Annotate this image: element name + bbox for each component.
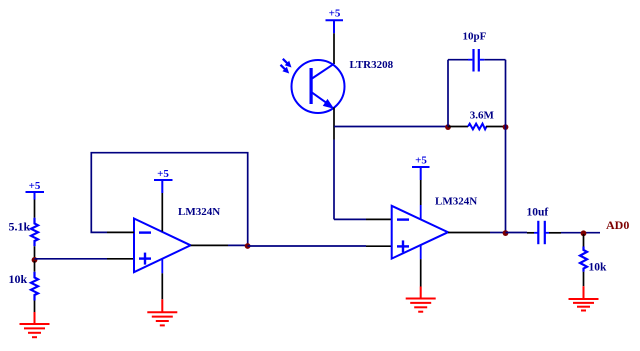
ground (right) (569, 286, 599, 310)
wire (feedback loop left) (447, 60, 449, 127)
capacitor C2 10uf (527, 207, 562, 245)
capacitor C1 10pF (463, 31, 487, 72)
wire (333, 140, 335, 220)
wire (U2 V+ pin) (420, 180, 422, 219)
wire (448, 59, 468, 61)
svg-text:AD0: AD0 (606, 218, 629, 232)
wire (35, 258, 108, 260)
wire (U2 output pin) (448, 232, 490, 234)
ground (U1) (147, 299, 177, 325)
node (503, 124, 509, 130)
op-amp U1 LM324N (134, 206, 220, 272)
svg-text:+5: +5 (157, 168, 169, 180)
phototransistor Q1 LTR3208 (281, 59, 394, 113)
power +5 (left divider) (26, 180, 45, 200)
wire (U1 V+ pin) (161, 193, 163, 232)
resistor R2 10k (9, 272, 39, 301)
wire (334, 126, 447, 128)
svg-text:10uf: 10uf (527, 207, 549, 219)
wire (U1 output pin) (191, 244, 228, 246)
wire (506, 232, 528, 234)
svg-text:10k: 10k (9, 272, 28, 286)
resistor R4 10k (580, 247, 607, 274)
resistor R1 5.1k (9, 218, 39, 247)
node (U1 output) (245, 243, 251, 249)
node (divider tap) (32, 257, 38, 263)
wire (U2 -in pin) (366, 218, 392, 220)
wire (U1 -in pin) (107, 231, 134, 233)
svg-text:+5: +5 (415, 155, 427, 167)
wire (334, 218, 366, 220)
wire (484, 59, 505, 61)
wire (583, 234, 585, 247)
wire (34, 301, 36, 313)
wire (U1 V- pin) (161, 259, 163, 299)
node (445, 124, 451, 130)
power +5 (U2) (412, 155, 430, 181)
op-amp U2 LM324N (392, 196, 478, 259)
wire (505, 127, 507, 233)
wire (feedback loop right) (505, 60, 507, 127)
wire (34, 200, 36, 218)
wire (583, 272, 585, 287)
node (AD0) (581, 230, 587, 236)
wire (561, 232, 600, 234)
wire (248, 245, 367, 247)
wire (U2 +in pin) (366, 245, 392, 247)
wire (U1 +in pin) (107, 258, 134, 260)
wire (Q1 collector) (333, 33, 335, 64)
power +5 (Q1) (326, 8, 344, 34)
wire (34, 261, 36, 272)
ground (left) (20, 312, 50, 337)
node (U2 output) (503, 230, 509, 236)
svg-text:LM324N: LM324N (178, 206, 220, 218)
wire (Q1 emitter) (333, 108, 335, 140)
wire (U2 V- pin) (420, 245, 422, 286)
svg-text:+5: +5 (29, 180, 41, 192)
svg-text:LTR3208: LTR3208 (350, 59, 394, 71)
power +5 (U1) (154, 168, 173, 193)
wire (U1 feedback loop) (91, 153, 247, 246)
wire (490, 232, 504, 234)
svg-text:10pF: 10pF (463, 31, 487, 43)
ground (U2) (406, 287, 436, 312)
resistor R3 3.6M (448, 110, 504, 130)
svg-text:10k: 10k (589, 262, 608, 274)
svg-text:5.1k: 5.1k (9, 220, 31, 234)
svg-text:LM324N: LM324N (435, 196, 477, 208)
wire (34, 246, 36, 258)
svg-text:3.6M: 3.6M (470, 110, 495, 122)
svg-text:+5: +5 (329, 8, 341, 20)
